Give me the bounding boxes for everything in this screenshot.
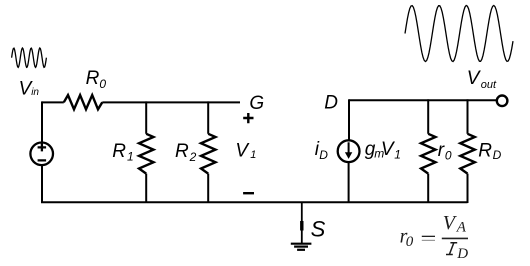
wire: r0 branch lower (427, 174, 429, 203)
output terminal (497, 96, 508, 107)
svg-text:G: G (249, 93, 264, 114)
wire: current source branch upper (348, 99, 350, 140)
svg-text:R: R (175, 141, 189, 162)
svg-text:0: 0 (99, 77, 106, 91)
wire: current source branch lower (348, 163, 350, 203)
wire: left branch upper (41, 101, 43, 142)
current source gmV1 (338, 140, 360, 162)
voltage source Vin (30, 143, 53, 166)
svg-text:0: 0 (445, 148, 452, 162)
ground (301, 202, 303, 243)
wire: left branch lower (42, 166, 146, 203)
wire: RD branch upper (467, 99, 469, 134)
svg-text:2: 2 (189, 150, 197, 164)
wire: top-left lead into R0 (42, 101, 64, 103)
bottom rail (146, 201, 467, 203)
wire: R2 branch lower (207, 174, 209, 203)
wire: R2 branch upper (207, 101, 209, 133)
svg-text:D: D (319, 148, 328, 162)
svg-text:0: 0 (406, 234, 414, 250)
resistor R1 (139, 134, 154, 174)
wire: R0 to node G (102, 101, 240, 103)
svg-text:out: out (481, 79, 497, 91)
svg-text:1: 1 (127, 150, 134, 164)
resistor RD (460, 134, 475, 174)
svg-text:D: D (324, 93, 338, 114)
svg-text:D: D (456, 246, 468, 262)
svg-text:in: in (31, 87, 39, 98)
wire: RD branch lower (467, 174, 469, 203)
svg-text:R: R (86, 68, 100, 89)
resistor R0 (64, 95, 103, 109)
svg-text:1: 1 (250, 149, 256, 161)
wire: right top rail (349, 99, 496, 101)
svg-text:R: R (112, 141, 126, 162)
wire: R1 branch upper (145, 101, 147, 133)
input sine wave icon (12, 48, 47, 67)
svg-text:1: 1 (394, 148, 401, 162)
svg-text:r: r (438, 140, 445, 161)
output sine wave icon (405, 6, 513, 62)
svg-text:D: D (493, 148, 502, 162)
resistor r0 (421, 134, 436, 174)
wire: R1 branch lower (145, 174, 147, 203)
minus sign of V1 (243, 192, 254, 194)
svg-text:R: R (478, 141, 492, 162)
plus sign of V1 (243, 113, 253, 123)
wire: r0 branch upper (427, 99, 429, 134)
svg-text:S: S (311, 217, 326, 242)
svg-text:A: A (456, 220, 467, 236)
resistor R2 (201, 134, 216, 174)
